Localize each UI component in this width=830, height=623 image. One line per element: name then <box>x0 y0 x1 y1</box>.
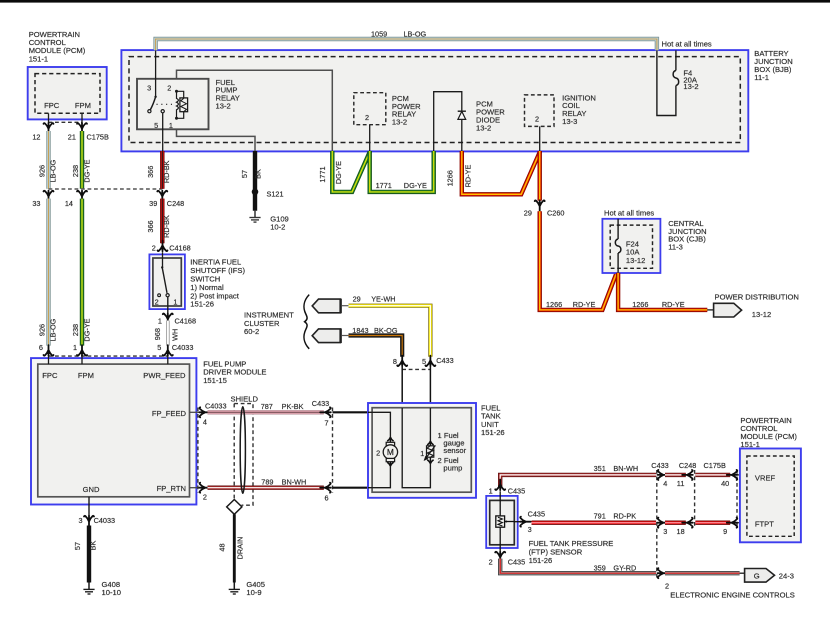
svg-text:C175B: C175B <box>704 461 726 470</box>
svg-text:14: 14 <box>65 199 73 208</box>
svg-text:RD-PK: RD-PK <box>613 512 636 521</box>
svg-text:60-2: 60-2 <box>244 327 259 336</box>
connector C175B dashed line (right section) <box>736 470 738 528</box>
FPM pin wire stub <box>81 113 83 123</box>
wire 926 LB-OG segment 1 <box>46 131 50 189</box>
fuel tank unit pin legend <box>438 431 467 472</box>
wire 1843 BK-OG <box>349 336 403 357</box>
wire 789 BN-WH labels <box>261 477 306 486</box>
PCM power diode wire <box>434 92 462 151</box>
svg-text:151-1: 151-1 <box>740 440 759 449</box>
svg-text:18: 18 <box>677 527 685 536</box>
fuel tank pressure (FTP) sensor box <box>486 496 518 548</box>
connector C4033 dashed line (top of FPDM) <box>49 355 168 357</box>
svg-text:BN-WH: BN-WH <box>613 464 638 473</box>
wire 1771 DG-YE segment 1 labels (rotated) <box>318 161 343 184</box>
svg-text:359: 359 <box>594 563 606 572</box>
row 1 pin numbers 4 11 40 <box>663 479 729 488</box>
wire 238 DG-YE segment 1 <box>80 131 84 189</box>
connector C433 arrow pin 4 (right) <box>658 470 669 480</box>
fuel gauge sensor pin arrow (up) <box>427 441 433 446</box>
instrument cluster connector pin 29 (pentagon) <box>312 299 348 314</box>
connector C4033 arrow pin 4 (right) <box>199 407 210 417</box>
connector C4033 dashed line (right of FPDM) <box>197 408 199 493</box>
svg-text:YE-WH: YE-WH <box>371 295 395 304</box>
row 2 pin numbers 3 18 9 <box>663 527 727 536</box>
svg-text:2: 2 <box>535 115 539 124</box>
connector C248 dashed line (right section) <box>694 470 696 528</box>
svg-text:FPC: FPC <box>42 371 58 380</box>
wire 789 BN-WH (FP_RTN) <box>208 486 324 490</box>
IFS switch output wire <box>167 297 169 314</box>
svg-text:8: 8 <box>393 357 397 366</box>
svg-text:VREF: VREF <box>755 474 776 483</box>
svg-text:M: M <box>387 447 394 457</box>
fuel pump relay pin 3 wire from 1059 LB-OG <box>155 50 157 96</box>
svg-text:57: 57 <box>240 170 249 178</box>
svg-text:RD-YE: RD-YE <box>464 165 473 188</box>
svg-text:21: 21 <box>68 132 76 141</box>
connector C248 labels <box>32 199 184 208</box>
svg-text:ELECTRONIC ENGINE CONTROLS: ELECTRONIC ENGINE CONTROLS <box>670 590 794 599</box>
FPDM title "FUEL PUMP DRIVER MODULE 151-15" <box>203 359 266 385</box>
connector C4168 pin 2 labels <box>152 244 191 253</box>
instrument cluster connector pin 1843 (pentagon) <box>312 328 348 343</box>
power distribution lead wire <box>707 309 713 311</box>
svg-text:Hot at all times: Hot at all times <box>604 209 654 218</box>
ground G408 label <box>102 580 121 597</box>
connector C433 arrow pin 2 (right) <box>658 568 669 578</box>
svg-text:787: 787 <box>261 402 273 411</box>
fuse F24 label "F24 10A 13-12" <box>626 239 645 264</box>
fuse F24 wire <box>617 219 619 273</box>
ignition coil relay label <box>562 93 596 126</box>
connector C4168 pin 1 labels <box>158 316 196 325</box>
PCM power diode D1 <box>458 111 466 119</box>
svg-text:BN-WH: BN-WH <box>282 477 307 486</box>
svg-text:24-3: 24-3 <box>779 572 794 581</box>
svg-text:48: 48 <box>218 543 227 551</box>
svg-text:PWR_FEED: PWR_FEED <box>143 371 186 380</box>
wire 238 DG-YE segment 1 labels <box>71 159 92 182</box>
connector C435 arrow pin 3 (right) <box>520 517 531 527</box>
svg-text:C433: C433 <box>436 356 453 365</box>
svg-text:C435: C435 <box>508 558 525 567</box>
svg-text:6: 6 <box>39 343 43 352</box>
fuel pump motor bottom pin arrow (down) <box>387 462 393 467</box>
shield dashed box <box>234 404 253 506</box>
PCM power relay U? dashed box <box>354 93 386 125</box>
fuel gauge sensor bottom pin arrow (down) <box>427 457 433 464</box>
connector C175B arrow pin 21 <box>77 123 87 134</box>
wire 48 DRAIN <box>233 514 236 582</box>
connector C433 arrow pin 8 (up) <box>397 356 407 367</box>
FP_FEED pin stub wire <box>190 411 200 413</box>
connector C260 labels <box>524 208 565 217</box>
tank feed wire (C433 pin 7 to fuel tank unit) <box>333 411 369 413</box>
svg-text:3: 3 <box>147 84 151 93</box>
svg-text:366: 366 <box>146 166 155 178</box>
connector C4033 pin 3 labels <box>79 516 116 525</box>
splice S121 <box>252 189 259 196</box>
svg-text:BK-OG: BK-OG <box>374 326 398 335</box>
connector C4033 arrow pin 3 (down) <box>84 516 94 527</box>
top border bar <box>0 0 830 3</box>
wire 359 GY-RD (FTP pin 2) <box>500 559 656 574</box>
svg-text:LB-OG: LB-OG <box>49 159 58 182</box>
wire 1771 DG-YE segment 2 (PCM power relay to diode) <box>370 151 434 192</box>
wire 1771 DG-YE segment 2 labels <box>376 181 427 190</box>
svg-text:DG-YE: DG-YE <box>83 159 92 182</box>
fuel tank unit box <box>368 403 476 498</box>
FP_RTN pin stub wire <box>190 487 200 489</box>
connector C248 arrow pin 18 (left) <box>682 518 693 528</box>
svg-text:13-2: 13-2 <box>216 102 231 111</box>
connector C248 arrow pin 14 <box>77 191 87 202</box>
fuel pump driver module (FPDM) box <box>31 358 196 504</box>
svg-text:238: 238 <box>71 324 80 336</box>
connector C433 dashed line (right of shield) <box>332 408 334 493</box>
FTP sensor title <box>529 539 614 565</box>
svg-text:sensor: sensor <box>443 446 466 455</box>
wire 1059 LB-OG label <box>371 30 427 39</box>
instrument cluster label <box>244 311 294 336</box>
svg-text:366: 366 <box>146 220 155 232</box>
svg-text:13-3: 13-3 <box>562 117 577 126</box>
connector C433 arrow pin 7 (left) <box>320 407 331 417</box>
ignition coil relay pin 2 wire <box>539 126 541 151</box>
connector C433 labels (above tank) <box>393 356 454 366</box>
powertrain control module (PCM) box top-left <box>28 67 107 119</box>
svg-text:C175B: C175B <box>87 132 109 141</box>
fuse F4 <box>673 71 679 86</box>
connector C433 dashed line (right section) <box>656 470 658 578</box>
FTP sensor element <box>496 516 514 527</box>
svg-text:10-2: 10-2 <box>270 222 285 231</box>
wire 29 YE-WH <box>349 306 431 357</box>
svg-text:6: 6 <box>325 493 329 502</box>
svg-text:C4168: C4168 <box>169 244 191 253</box>
svg-text:RD-BK: RD-BK <box>162 215 171 238</box>
svg-text:C4033: C4033 <box>94 516 116 525</box>
connector C4033 arrow pin 1 (up) <box>77 345 87 356</box>
svg-text:DRAIN: DRAIN <box>236 537 245 560</box>
fuel pump return wire inside tank <box>368 466 390 488</box>
connector C4033 arrow pin 6 (up) <box>44 345 54 356</box>
svg-text:1843: 1843 <box>352 326 368 335</box>
svg-text:2: 2 <box>365 113 369 122</box>
svg-text:SHIELD: SHIELD <box>231 394 259 403</box>
off-page connector G <box>745 569 775 583</box>
wire 926 LB-OG segment 2 labels <box>37 318 57 341</box>
CJB title "CENTRAL JUNCTION BOX (CJB) 11-3" <box>668 219 706 252</box>
svg-text:2: 2 <box>376 449 380 458</box>
connector C248 arrow pin 39 <box>157 191 167 202</box>
svg-text:151-15: 151-15 <box>203 376 227 385</box>
svg-text:13-12: 13-12 <box>626 256 645 265</box>
wire 366 RD-BK segment 1 <box>160 151 164 189</box>
wire 1266 RD-YE segment 2 (ignition coil relay down to C260) <box>538 151 542 201</box>
FTPT stub wire <box>737 522 747 524</box>
svg-text:5: 5 <box>422 357 426 366</box>
PCM power relay pin 2 wire <box>369 125 371 151</box>
wire 366 RD-BK segment 1 labels <box>146 160 171 183</box>
svg-text:C4168: C4168 <box>175 316 197 325</box>
powertrain control module (PCM) top-left title <box>29 30 86 64</box>
FPC pin wire stub <box>48 113 50 123</box>
wire 48 DRAIN labels <box>218 537 245 560</box>
svg-text:1: 1 <box>489 486 493 495</box>
connector C175B dashed line <box>49 121 83 123</box>
svg-text:4: 4 <box>663 479 667 488</box>
svg-text:1266: 1266 <box>632 300 648 309</box>
svg-text:10-9: 10-9 <box>246 588 261 597</box>
svg-text:1: 1 <box>169 121 173 130</box>
svg-text:2: 2 <box>665 581 669 590</box>
svg-text:RD-YE: RD-YE <box>573 300 596 309</box>
svg-text:WH: WH <box>170 329 179 341</box>
instrument cluster bracket <box>304 295 309 349</box>
svg-text:1059: 1059 <box>371 30 387 39</box>
wire 926 LB-OG segment 2 <box>46 199 50 346</box>
wire 1771 DG-YE segment 1 (fuel pump relay coil to PCM power relay) <box>332 151 369 192</box>
svg-text:926: 926 <box>37 324 46 336</box>
fuel pump relay coil <box>175 90 188 120</box>
svg-text:2: 2 <box>155 298 159 307</box>
svg-text:FPM: FPM <box>75 101 91 110</box>
battery junction box (BJB) outline <box>121 50 748 151</box>
fuel gauge sensor variable resistor <box>424 445 436 460</box>
IFS switch label text <box>190 258 245 309</box>
svg-text:13-12: 13-12 <box>752 310 771 319</box>
wire 359 GY-RD segment 2 (C433 to G connector) <box>665 571 745 575</box>
fuel gauge sensor return wire inside tank <box>402 408 430 488</box>
svg-text:29: 29 <box>524 208 532 217</box>
IFS switch element <box>158 252 169 297</box>
GND pin wire <box>88 497 90 516</box>
wire 1843 BK-OG labels <box>352 326 398 335</box>
wire 57 BK (FPDM ground) <box>87 526 91 583</box>
svg-text:151-26: 151-26 <box>529 556 553 565</box>
svg-text:151-1: 151-1 <box>29 54 48 63</box>
connector C433 arrow pin 3 (right) <box>658 518 669 528</box>
connector C433 dashed line (above tank) <box>402 368 430 370</box>
connector C4168 arrow pin 2 (up) <box>158 241 168 252</box>
connector C435 arrow pin 2 (down) <box>495 552 505 563</box>
svg-text:DG-YE: DG-YE <box>83 318 92 341</box>
IFS switch position labels <box>155 298 178 307</box>
fuse F4 label "F4 20A 13-2" <box>683 68 698 91</box>
ground G109 <box>249 211 260 222</box>
svg-text:FPC: FPC <box>44 101 60 110</box>
FPDM pin wires into module <box>49 356 168 364</box>
tank sender wires (C433 to fuel tank unit) <box>402 367 430 408</box>
wire 791 RD-PK (FTP pin 3) <box>532 521 657 525</box>
svg-text:1: 1 <box>73 343 77 352</box>
fuel pump relay K? coil feed wire (pin 2 loop to 1771 exit) <box>177 70 333 151</box>
connector C175B arrow pin 12 <box>44 123 54 134</box>
svg-text:2: 2 <box>489 558 493 567</box>
svg-text:C248: C248 <box>167 199 184 208</box>
fuel pump feed wire inside tank <box>368 412 390 437</box>
wire 351 BN-WH labels <box>594 464 639 473</box>
svg-text:FP_FEED: FP_FEED <box>152 409 187 418</box>
svg-text:351: 351 <box>594 464 606 473</box>
fuse F24 <box>615 239 621 253</box>
ground G408 <box>83 583 94 595</box>
svg-text:PK-BK: PK-BK <box>282 402 304 411</box>
connector C4033 arrow pin 5 (up) <box>163 345 173 356</box>
wire 1266 RD-YE segment 1 labels (rotated) <box>446 165 473 188</box>
svg-text:151-26: 151-26 <box>481 428 505 437</box>
tank return wire (fuel tank unit to C433 pin 6) <box>333 487 369 489</box>
connector labels C433 C248 C175B <box>651 461 726 470</box>
fuel pump relay switch <box>148 96 173 113</box>
shield drain diamond <box>227 500 242 515</box>
powertrain control module (PCM) box bottom-right <box>740 449 801 543</box>
VREF stub wire <box>737 474 747 476</box>
wire 968 WH labels <box>153 328 180 341</box>
connector C4033 top labels <box>39 343 194 352</box>
connector C248 arrow pin 11 (left) <box>682 470 693 480</box>
svg-text:11: 11 <box>677 479 685 488</box>
svg-text:1: 1 <box>173 298 177 307</box>
fuel gauge sensor feed wire inside tank <box>429 408 431 441</box>
svg-text:3: 3 <box>79 516 83 525</box>
wire 29 YE-WH labels <box>353 295 396 304</box>
svg-text:13-2: 13-2 <box>683 82 698 91</box>
svg-text:C4033: C4033 <box>172 343 194 352</box>
connector C433 arrow pin 5 (up) <box>425 356 435 367</box>
svg-text:C260: C260 <box>547 208 564 217</box>
FPDM pin labels <box>42 371 186 494</box>
svg-text:3: 3 <box>663 527 667 536</box>
FTP sensor internal wires <box>499 491 501 551</box>
wire 791 RD-PK segment 2 (C433 to C248) <box>665 521 686 525</box>
svg-text:1771: 1771 <box>376 181 392 190</box>
wire 1266 RD-YE segment 3 labels <box>546 300 596 309</box>
wire 238 DG-YE segment 2 <box>80 199 84 346</box>
svg-text:151-26: 151-26 <box>190 300 214 309</box>
svg-text:C435: C435 <box>508 486 525 495</box>
svg-text:7: 7 <box>325 418 329 427</box>
fuel tank unit title <box>481 403 505 437</box>
svg-text:1: 1 <box>420 449 424 458</box>
connector C175B arrow pin 40 (left) <box>727 470 738 480</box>
ground G109 label <box>270 214 289 231</box>
wire 1266 RD-YE segment 3 (C260 to CJB fuse) <box>540 211 617 310</box>
fuel pump motor M <box>383 442 397 461</box>
connector C248 arrow pin 33 <box>44 191 54 202</box>
svg-text:2: 2 <box>152 244 156 253</box>
connector C435 arrow pin 1 (up) <box>495 480 505 491</box>
power distribution off-page connector <box>714 303 742 317</box>
svg-text:57: 57 <box>73 542 82 550</box>
shield drain loop <box>240 407 245 494</box>
wire 57 BK labels (FPDM ground) <box>73 541 98 551</box>
wire 1266 RD-YE segment 4 (CJB to power distribution) <box>618 273 714 310</box>
svg-text:4: 4 <box>203 417 207 426</box>
connector C4033 side labels <box>203 402 227 502</box>
svg-text:C433: C433 <box>651 461 668 470</box>
svg-text:10-10: 10-10 <box>102 588 121 597</box>
svg-text:LB-OG: LB-OG <box>404 30 427 39</box>
svg-text:13-2: 13-2 <box>476 123 491 132</box>
svg-text:Hot at all times: Hot at all times <box>662 40 712 49</box>
wire 1059 LB-OG (top feed) <box>156 39 657 50</box>
svg-text:DG-YE: DG-YE <box>404 181 427 190</box>
svg-text:5: 5 <box>154 121 158 130</box>
fuse F4 feed loop wire <box>657 50 676 115</box>
wire 366 RD-BK segment 2 labels <box>146 215 171 238</box>
wire 1266 RD-YE segment 4 labels <box>632 300 685 309</box>
fuel pump relay pin numbers <box>147 84 173 131</box>
inertia fuel shutoff (IFS) switch box <box>149 254 185 309</box>
svg-text:926: 926 <box>37 165 46 177</box>
ground G405 label <box>246 580 265 597</box>
G connector lead wire <box>740 572 745 574</box>
wire 238 DG-YE segment 2 labels <box>71 318 92 341</box>
svg-text:C248: C248 <box>679 461 696 470</box>
connector C4033 arrow pin 2 (right) <box>199 483 210 493</box>
wire 1266 RD-YE segment 1 (diode to ignition coil relay) <box>462 151 540 194</box>
svg-text:1771: 1771 <box>318 166 327 182</box>
fuel pump motor pin arrow (up) <box>387 437 393 442</box>
svg-text:C4033: C4033 <box>205 402 227 411</box>
connector C433 side labels <box>312 399 329 502</box>
svg-text:9: 9 <box>723 527 727 536</box>
svg-text:3: 3 <box>528 525 532 534</box>
svg-text:S121: S121 <box>267 190 284 199</box>
fuel pump relay label "FUEL PUMP RELAY 13-2" <box>216 78 240 111</box>
svg-text:pump: pump <box>443 464 462 473</box>
svg-text:RD-BK: RD-BK <box>162 160 171 183</box>
svg-text:BK: BK <box>253 169 262 179</box>
connector C4168 arrow pin 1 (down) <box>163 313 173 324</box>
wire 926 LB-OG segment 1 labels <box>37 159 57 182</box>
svg-text:BK: BK <box>89 541 98 551</box>
wire 968 WH <box>166 321 170 346</box>
connector C435 pin 3 labels <box>528 510 545 535</box>
svg-text:RD-YE: RD-YE <box>662 300 685 309</box>
connector C433 arrow pin 6 (left) <box>320 483 331 493</box>
svg-text:POWER DISTRIBUTION: POWER DISTRIBUTION <box>715 293 799 302</box>
fuel pump relay pin 5 wire <box>162 113 164 151</box>
svg-text:DG-YE: DG-YE <box>334 161 343 184</box>
svg-text:G: G <box>754 571 760 580</box>
wire 359 GY-RD labels <box>594 563 637 572</box>
connector C175B arrow pin 9 (left) <box>727 518 738 528</box>
wire 787 PK-BK labels <box>261 402 304 411</box>
svg-text:GY-RD: GY-RD <box>613 563 636 572</box>
wire 351 BN-WH segment 2 (C433 to C248) <box>665 473 686 477</box>
ground G405 <box>229 583 240 595</box>
connector C248 dashed line <box>49 188 163 190</box>
svg-text:791: 791 <box>594 512 606 521</box>
svg-text:C435: C435 <box>528 510 545 519</box>
ignition coil relay dashed box <box>525 95 555 127</box>
svg-text:FPM: FPM <box>78 371 94 380</box>
svg-text:2: 2 <box>203 493 207 502</box>
splice S121 wire 57 BK <box>253 151 257 211</box>
svg-text:LB-OG: LB-OG <box>49 318 58 341</box>
svg-text:5: 5 <box>157 343 161 352</box>
wire 351 BN-WH segment 3 (C248 to C175B) <box>695 473 730 477</box>
BJB title "BATTERY JUNCTION BOX (BJB) 11-1" <box>754 49 792 82</box>
svg-text:39: 39 <box>149 199 157 208</box>
svg-text:C433: C433 <box>312 399 329 408</box>
svg-text:33: 33 <box>32 199 40 208</box>
